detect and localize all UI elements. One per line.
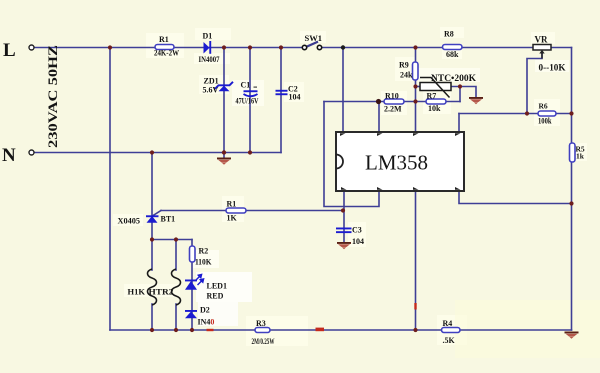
svg-text:R1: R1	[159, 35, 169, 44]
svg-text:5.6V: 5.6V	[203, 86, 219, 95]
svg-text:R2: R2	[199, 247, 209, 256]
svg-text:IN40: IN40	[198, 318, 215, 327]
svg-text:R4: R4	[443, 319, 453, 328]
svg-text:IN4007: IN4007	[199, 55, 220, 64]
svg-text:10k: 10k	[428, 104, 441, 113]
svg-text:C3: C3	[352, 226, 362, 235]
svg-text:2.2M: 2.2M	[384, 105, 402, 114]
svg-text:100k: 100k	[538, 117, 552, 126]
svg-text:104: 104	[289, 93, 301, 102]
svg-text:H1K: H1K	[128, 287, 146, 297]
svg-text:HTR2: HTR2	[149, 287, 174, 297]
svg-text:NTC•200K: NTC•200K	[431, 74, 477, 84]
svg-text:D1: D1	[203, 32, 213, 41]
svg-text:RED: RED	[207, 292, 224, 301]
svg-text:R7: R7	[427, 92, 437, 101]
svg-text:VR: VR	[535, 35, 548, 45]
svg-text:R8: R8	[444, 30, 454, 39]
svg-text:ZD1: ZD1	[204, 77, 219, 86]
svg-text:D2: D2	[200, 306, 210, 315]
svg-text:N: N	[2, 145, 16, 166]
svg-text:1K: 1K	[227, 214, 238, 223]
svg-text:1k: 1k	[576, 152, 585, 161]
svg-text:0--10K: 0--10K	[539, 63, 566, 73]
svg-text:24K-2W: 24K-2W	[154, 49, 179, 58]
svg-text:R1: R1	[227, 200, 237, 209]
svg-text:LM358: LM358	[365, 151, 428, 175]
svg-text:110K: 110K	[195, 258, 212, 267]
svg-text:R6: R6	[539, 102, 548, 111]
svg-text:X0405: X0405	[118, 217, 141, 226]
svg-text:68k: 68k	[446, 50, 459, 59]
svg-text:BT1: BT1	[161, 215, 176, 224]
svg-text:L: L	[3, 40, 16, 61]
svg-text:LED1: LED1	[207, 282, 227, 291]
svg-text:24k: 24k	[400, 71, 413, 80]
svg-text:R3: R3	[256, 319, 266, 328]
svg-text:104: 104	[352, 237, 364, 246]
svg-text:R9: R9	[399, 61, 409, 70]
svg-text:.5K: .5K	[443, 336, 456, 345]
svg-text:47U/16V: 47U/16V	[236, 97, 259, 106]
svg-text:R10: R10	[385, 92, 399, 101]
svg-text:230VAC 50HZ: 230VAC 50HZ	[45, 45, 60, 148]
svg-text:2M/0.25W: 2M/0.25W	[252, 337, 275, 346]
svg-text:C1: C1	[241, 81, 251, 90]
svg-text:SW1: SW1	[305, 33, 322, 43]
